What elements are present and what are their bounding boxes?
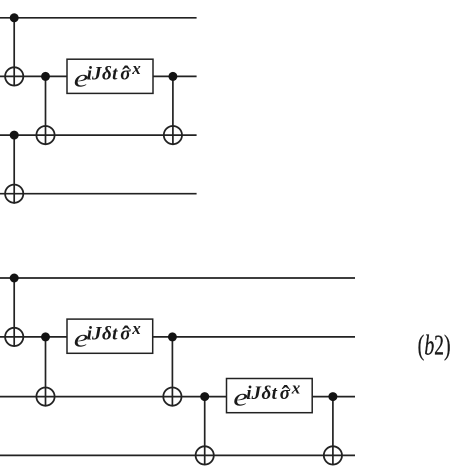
bottom CNOT4 control dot on q3 <box>200 392 209 401</box>
svg-text:δ: δ <box>102 64 112 85</box>
top CNOT4 target circle on q3 <box>164 126 182 144</box>
bottom CNOT1 target circle on q2 <box>5 328 23 346</box>
top CNOT3 target circle on q3 <box>36 126 54 144</box>
top CNOT3 control dot on q2 <box>41 72 50 81</box>
top circuit: wire q1 <box>0 17 197 19</box>
bottom circuit: wire q2 <box>0 336 355 338</box>
top CNOT2 control dot on q3 <box>10 131 19 140</box>
svg-text:2): 2) <box>434 330 450 361</box>
bottom circuit: wire q1 <box>0 277 355 279</box>
bottom gate box 2 label e^{iJdt sigma-hat^x} <box>233 378 301 411</box>
top CNOT4 vertical wire (q2 control to q3 target) <box>172 76 174 145</box>
svg-text:x: x <box>131 59 141 78</box>
top circuit: wire q2 <box>0 75 197 77</box>
top CNOT1 control dot on q1 <box>10 13 19 22</box>
bottom circuit: wire q4 <box>0 454 355 456</box>
bottom CNOT2 vertical wire (q2 control to q3 target) <box>45 337 47 407</box>
svg-text:b: b <box>424 330 434 361</box>
bottom CNOT5 target circle on q4 <box>324 446 342 464</box>
bottom CNOT3 target circle on q3 <box>163 388 181 406</box>
top CNOT2 vertical wire (q3 control to q4 target) <box>13 135 15 204</box>
top CNOT1 target circle on q2 <box>5 67 23 85</box>
bottom CNOT5 control dot on q3 <box>328 392 337 401</box>
bottom CNOT5 vertical wire (q3 control to q4 target) <box>332 397 334 466</box>
figure label (b2) <box>418 330 451 361</box>
bottom CNOT4 target circle on q4 <box>196 446 214 464</box>
bottom CNOT2 control dot on q2 <box>41 332 50 341</box>
top gate box U=exp(iJdt sigma-x) on q2 <box>67 59 153 93</box>
bottom gate box 1 U=exp(iJdt sigma-x) on q2 <box>67 319 153 353</box>
top CNOT1 vertical wire (q1 control to q2 target) <box>13 18 15 87</box>
bottom gate box 1 label e^{iJdt sigma-hat^x} <box>74 319 142 352</box>
top CNOT2 target circle on q4 <box>5 185 23 203</box>
top CNOT4 control dot on q2 <box>168 72 177 81</box>
bottom CNOT3 vertical wire (q2 control to q3 target) <box>171 337 173 407</box>
bottom CNOT4 vertical wire (q3 control to q4 target) <box>204 397 206 466</box>
top CNOT3 vertical wire (q2 control to q3 target) <box>45 76 47 145</box>
top gate box label e^{iJdt sigma-hat^x} <box>74 59 142 92</box>
bottom CNOT2 target circle on q3 <box>36 388 54 406</box>
svg-text:J: J <box>91 64 102 85</box>
svg-text:t: t <box>112 64 118 85</box>
top circuit: wire q4 <box>0 193 197 195</box>
bottom circuit: wire q3 <box>0 396 355 398</box>
bottom CNOT1 vertical wire (q1 control to q2 target) <box>13 278 15 347</box>
bottom CNOT3 control dot on q2 <box>168 332 177 341</box>
svg-text:(: ( <box>418 330 425 361</box>
svg-text:ˆ: ˆ <box>122 63 130 89</box>
bottom gate box 2 U=exp(iJdt sigma-x) on q3 <box>227 379 313 413</box>
bottom CNOT1 control dot on q1 <box>10 274 19 283</box>
top circuit: wire q3 <box>0 134 197 136</box>
